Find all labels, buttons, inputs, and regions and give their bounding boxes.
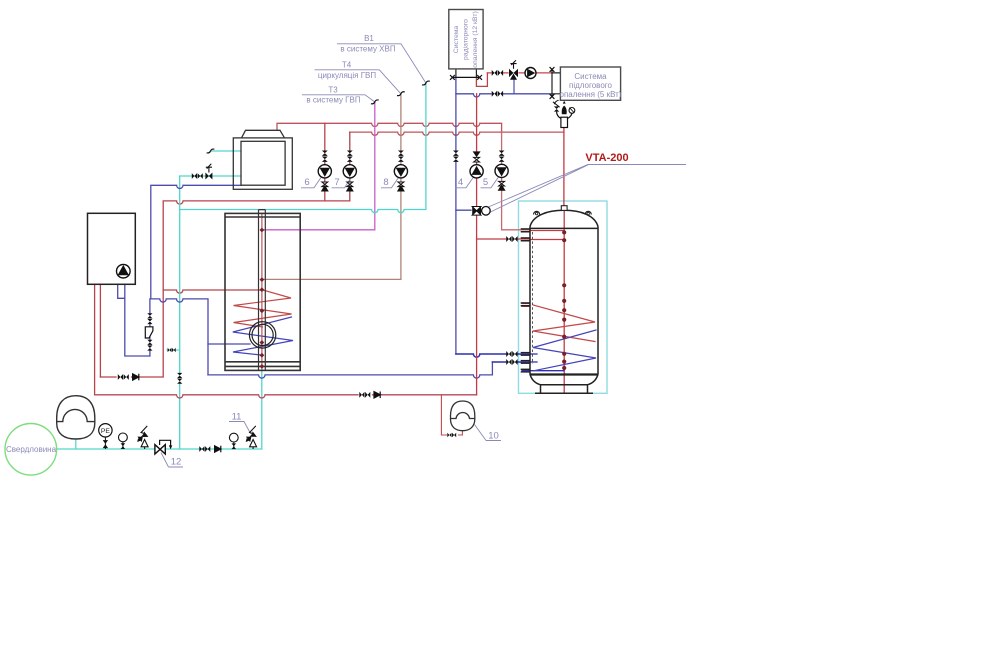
svg-text:В1: В1 [364, 34, 374, 43]
svg-text:PE: PE [101, 428, 111, 435]
svg-text:10: 10 [488, 431, 499, 442]
svg-text:11: 11 [232, 412, 242, 423]
svg-text:6: 6 [304, 177, 309, 188]
svg-text:в систему ХВП: в систему ХВП [340, 45, 395, 54]
svg-text:Система: Система [574, 72, 607, 81]
svg-text:VTA-200: VTA-200 [585, 152, 628, 164]
svg-text:7: 7 [334, 177, 339, 188]
svg-text:Т4: Т4 [342, 61, 352, 70]
svg-text:4: 4 [458, 177, 463, 188]
svg-text:Свердловина: Свердловина [6, 445, 57, 454]
svg-text:циркуляція ГВП: циркуляція ГВП [318, 71, 376, 80]
svg-text:опалення (5 кВт): опалення (5 кВт) [560, 90, 622, 99]
svg-text:опалення (12 кВт): опалення (12 кВт) [472, 11, 479, 67]
svg-text:8: 8 [383, 177, 388, 188]
svg-text:5: 5 [483, 177, 488, 188]
svg-text:12: 12 [171, 457, 182, 468]
svg-text:в систему ГВП: в систему ГВП [306, 96, 360, 105]
svg-text:радіаторного: радіаторного [462, 19, 470, 60]
svg-text:підлогового: підлогового [569, 81, 613, 90]
svg-text:Система: Система [453, 26, 460, 54]
svg-text:Т3: Т3 [328, 86, 338, 95]
